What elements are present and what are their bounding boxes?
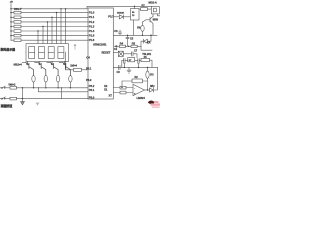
svg-text:P1.5: P1.5 bbox=[89, 34, 95, 38]
svg-text:P1.1: P1.1 bbox=[89, 15, 95, 19]
svg-text:P1.2: P1.2 bbox=[89, 20, 95, 24]
wire top rail from bus bbox=[11, 6, 152, 9]
wire xtal rail bbox=[113, 66, 157, 68]
wire segment drop c bbox=[47, 22, 49, 44]
svg-text:P3.2: P3.2 bbox=[86, 78, 92, 82]
resistor R3 bbox=[146, 71, 149, 78]
svg-text:P1.0: P1.0 bbox=[89, 11, 95, 15]
wire RESET bbox=[113, 52, 118, 54]
+5V bus vertical bbox=[10, 4, 12, 41]
opamp input wire 1 bbox=[113, 87, 133, 89]
input resistor box2 bbox=[120, 91, 126, 94]
digit 1 bbox=[29, 47, 35, 59]
opamp output wire bbox=[145, 89, 150, 91]
svg-text:P1.6: P1.6 bbox=[89, 38, 95, 42]
svg-text:XT: XT bbox=[109, 94, 113, 98]
op-amp LM324 bbox=[133, 84, 145, 95]
+5V arrow display supply bbox=[74, 44, 76, 50]
svg-text:数码显示器: 数码显示器 bbox=[0, 47, 16, 52]
resistor R8 bbox=[11, 12, 88, 14]
wire segment drop e bbox=[56, 13, 58, 44]
svg-text:LM324: LM324 bbox=[137, 96, 146, 100]
display module box bbox=[26, 44, 69, 62]
svg-text:AT89C2051: AT89C2051 bbox=[93, 43, 107, 47]
wire mid rail bbox=[113, 34, 157, 36]
capacitor C8 bbox=[138, 59, 139, 64]
wire oval3 to line A bbox=[57, 82, 59, 88]
base resistor oval 4 bbox=[69, 76, 72, 82]
svg-text:P3.1: P3.1 bbox=[86, 66, 92, 70]
wire switch line A bbox=[17, 87, 89, 89]
transistor Q2 bbox=[39, 62, 41, 65]
svg-text:1k5×4: 1k5×4 bbox=[70, 65, 77, 68]
ground bbox=[21, 102, 25, 105]
resistor R12 bbox=[11, 30, 88, 32]
wire segment drop g bbox=[65, 9, 67, 44]
wire oval1 to line A bbox=[33, 82, 35, 88]
driver box 9013 bbox=[131, 9, 140, 21]
wire oval2 to line A bbox=[45, 82, 47, 88]
resistor R11 bbox=[11, 26, 88, 28]
base resistor oval 3 bbox=[56, 76, 59, 82]
transistor Q5 8550 bbox=[150, 17, 153, 26]
svg-text:TSL201: TSL201 bbox=[142, 52, 151, 56]
wire oval4 to line A bbox=[69, 82, 71, 88]
junction dots right bbox=[134, 6, 135, 7]
transistor Q4 bbox=[63, 62, 65, 65]
pushbutton SW2 bbox=[0, 98, 2, 100]
crystal box X1 bbox=[118, 51, 123, 56]
capacitor C2 bbox=[124, 59, 125, 64]
junction dots on bus bbox=[10, 8, 11, 9]
capacitor C5 bbox=[126, 35, 129, 46]
svg-text:SP: SP bbox=[150, 84, 154, 88]
resistor R7 bbox=[141, 8, 148, 11]
resistor R14 bbox=[11, 39, 88, 41]
wire box bottom pin bbox=[133, 20, 135, 35]
svg-text:X1: X1 bbox=[104, 88, 108, 92]
transistor Q3 bbox=[51, 62, 53, 65]
relay K box bbox=[151, 7, 159, 14]
resistor R10 bbox=[11, 21, 88, 23]
wire box to R7 bbox=[139, 8, 141, 10]
capacitor C6 bbox=[119, 30, 122, 35]
svg-text:KA: KA bbox=[147, 40, 151, 44]
resistor R6 bbox=[141, 25, 144, 31]
wire segment drop f bbox=[60, 9, 62, 44]
crystal Y1 bbox=[128, 58, 135, 62]
reset arrow bbox=[115, 45, 120, 47]
capacitor C7 bbox=[132, 52, 137, 58]
svg-text:5k6×2: 5k6×2 bbox=[9, 83, 16, 87]
resistor RSW1 bbox=[5, 87, 10, 89]
input resistor box1 bbox=[120, 86, 126, 89]
pushbutton SW1 bbox=[0, 87, 2, 89]
svg-text:C4: C4 bbox=[86, 56, 90, 60]
stray ground mark bbox=[36, 103, 40, 106]
diode VD1 1N4148 bbox=[119, 15, 123, 19]
diode KA bbox=[144, 35, 151, 43]
base resistor oval 1 bbox=[32, 76, 35, 82]
svg-text:P1.3: P1.3 bbox=[89, 24, 95, 28]
transistor Q1 bbox=[27, 62, 29, 65]
opamp input wire 2 bbox=[113, 92, 133, 94]
svg-text:P3.0: P3.0 bbox=[89, 96, 95, 100]
ground g2 bbox=[127, 67, 131, 73]
wire xtal chain bbox=[122, 60, 152, 67]
LED VD2 bbox=[150, 88, 154, 92]
base resistor oval 2 bbox=[44, 76, 47, 82]
resistor R5 bbox=[131, 45, 137, 47]
svg-text:1N4148: 1N4148 bbox=[117, 12, 125, 15]
junction dot ground/lineA bbox=[22, 87, 23, 88]
svg-text:P3.1: P3.1 bbox=[89, 88, 95, 92]
svg-text:9012×4: 9012×4 bbox=[14, 62, 23, 66]
resistor RSW2 bbox=[5, 98, 10, 100]
junction dots on drops bbox=[37, 30, 38, 31]
wire box top to rail bbox=[134, 6, 136, 8]
wire to ground bbox=[22, 88, 24, 102]
svg-text:MG2-A: MG2-A bbox=[149, 1, 157, 5]
svg-text:RESET: RESET bbox=[102, 51, 111, 55]
wire segment drop b bbox=[42, 27, 44, 44]
resistor R4 bbox=[119, 45, 125, 47]
digit 3 bbox=[48, 47, 54, 59]
resistor R9 bbox=[11, 16, 88, 18]
svg-text:8550: 8550 bbox=[153, 17, 159, 21]
wire segment drop a bbox=[37, 31, 39, 44]
wire segment drop d bbox=[51, 17, 53, 43]
resistor R13 bbox=[11, 35, 88, 37]
svg-text:P3.2: P3.2 bbox=[89, 84, 95, 88]
svg-text:DS1~7: DS1~7 bbox=[14, 8, 22, 11]
wire switch line B bbox=[17, 98, 89, 100]
svg-text:P1.4: P1.4 bbox=[89, 29, 95, 33]
digit 4 bbox=[58, 47, 64, 59]
wire step to line B bbox=[38, 88, 88, 92]
svg-text:调谐按钮: 调谐按钮 bbox=[1, 103, 13, 108]
microcontroller U1 AT89C2051 box bbox=[88, 8, 113, 99]
resistor R9h bbox=[141, 58, 150, 61]
digit 2 bbox=[39, 47, 45, 59]
wire step to line C bbox=[61, 88, 63, 99]
wire P3.7 to diode bbox=[113, 16, 119, 18]
capacitor C3 bbox=[119, 65, 120, 69]
digit select resistor 1kx4 bbox=[65, 52, 73, 70]
watermark logo bbox=[148, 101, 160, 108]
resistor Rb box bbox=[132, 79, 142, 83]
